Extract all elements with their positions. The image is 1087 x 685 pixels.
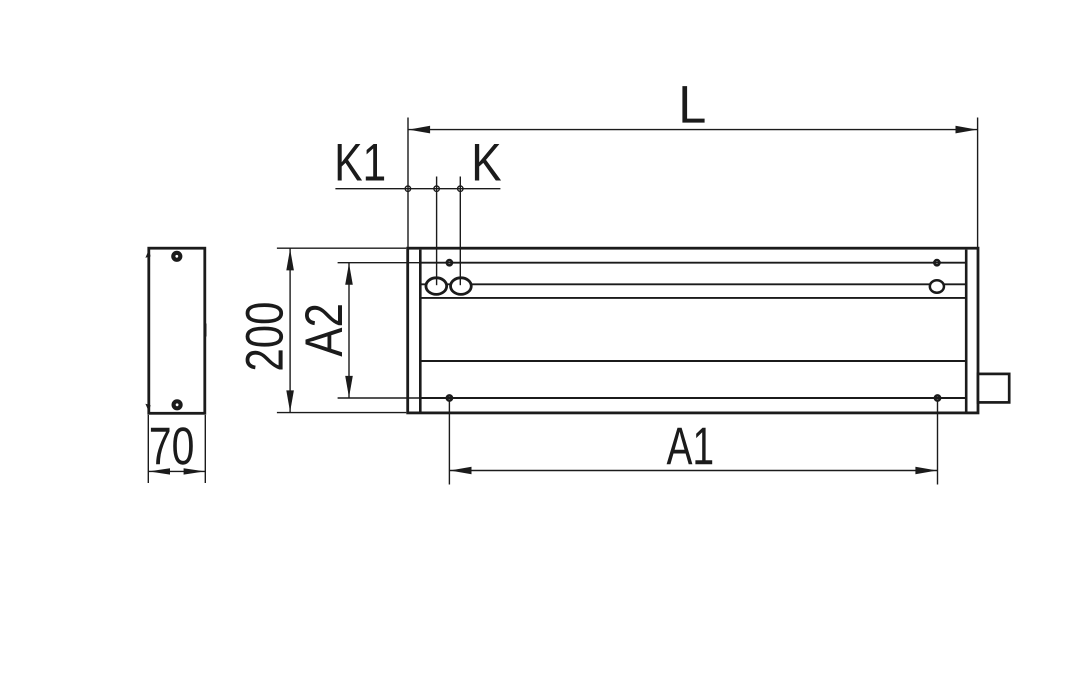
slot right: [930, 280, 944, 292]
dimension text 200: [246, 303, 284, 369]
K witness circle 1: [434, 186, 439, 191]
K1 witness circle: [405, 186, 410, 191]
K witness circle 2: [458, 186, 463, 191]
dimension text A2: [305, 305, 342, 356]
reference dot bottom-left: [447, 395, 452, 400]
dimension A1 arrow right: [915, 467, 937, 475]
dimension A1 line: [449, 470, 937, 472]
dimension 200 arrow bottom: [286, 390, 294, 412]
dimension 70 extension line left: [147, 415, 149, 483]
side view hole top: [173, 253, 180, 260]
inner line 2 (slot centre line): [420, 283, 966, 285]
corner tick top-left: [145, 250, 150, 258]
dimension A2 line: [348, 263, 350, 398]
dimension 70 line: [148, 470, 205, 472]
dimension text A1: [667, 428, 713, 465]
dimension L extension line right: [977, 118, 979, 248]
dimension 200 extension line bottom: [277, 412, 406, 414]
K leader line 1: [436, 177, 438, 286]
inner line 1 (A2 upper reference, extends left): [338, 262, 421, 264]
dimension A1 arrow left: [450, 467, 472, 475]
dimension L line: [408, 129, 978, 131]
dimension text L: [682, 86, 704, 123]
reference dot bottom-right: [935, 395, 940, 400]
reference dot top-right: [934, 260, 939, 265]
dimension A2 arrow bottom: [345, 376, 353, 398]
dimension L arrow left: [409, 126, 431, 134]
reference dot top-left: [447, 260, 452, 265]
dimension 70 arrow left: [149, 468, 170, 474]
side view hole bottom: [174, 401, 181, 408]
front view body: [408, 248, 978, 413]
dimension A1 extension line right: [937, 401, 939, 485]
dimension 70 extension line right: [204, 415, 206, 483]
inner line 5 (A1 reference, extends left): [338, 397, 421, 399]
dimension A1 extension line left: [448, 401, 450, 485]
slot left 2: [451, 278, 472, 295]
dimension 200 extension line top: [277, 247, 406, 249]
dimension text K: [475, 144, 501, 181]
slot left 1: [426, 278, 447, 295]
dimension 200 line: [289, 248, 291, 412]
dimension L extension line left: [407, 118, 409, 248]
right end protrusion: [978, 374, 1009, 403]
dimension L arrow right: [956, 126, 978, 134]
K leader line 2: [459, 177, 461, 286]
inner line 4: [420, 360, 966, 362]
corner tick bottom-left: [145, 404, 150, 412]
K/K1 datum line: [335, 188, 500, 190]
side view housing: [149, 248, 205, 413]
inner line 3: [420, 297, 966, 299]
dimension A2 arrow top: [345, 263, 353, 285]
left end cap line: [419, 250, 422, 412]
dimension text K1: [338, 144, 384, 181]
right end cap line: [965, 250, 968, 412]
dimension 70 arrow right: [184, 468, 205, 474]
seam mark right edge: [204, 324, 206, 337]
dimension text 70: [151, 427, 193, 465]
dimension 200 arrow top: [286, 249, 294, 271]
